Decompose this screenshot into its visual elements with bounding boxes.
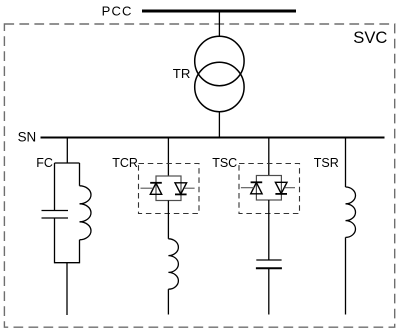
wire TCR valve to reactor — [167, 201, 169, 239]
svg-text:TCR: TCR — [112, 156, 138, 170]
svg-text:TSR: TSR — [314, 156, 339, 170]
capacitor FC — [42, 211, 69, 219]
wire FC right leg upper — [79, 163, 81, 186]
TCR valve dashed box — [139, 164, 200, 214]
wire TSR stem from SN bus — [345, 138, 347, 187]
wire FC bottom bar — [55, 262, 80, 264]
thyristor downward gate lead — [285, 187, 295, 189]
valve body rectangle — [156, 176, 181, 201]
thyristor upward triangle — [251, 183, 262, 194]
thyristor downward cathode bar — [275, 193, 287, 195]
svg-text:SVC: SVC — [353, 28, 387, 47]
thyristor downward cathode bar — [175, 193, 187, 195]
wire FC right leg lower — [79, 240, 81, 263]
valve body rectangle — [256, 176, 281, 201]
wire FC top bar — [55, 162, 80, 164]
TCR thyristor valve — [141, 176, 195, 201]
capacitor TSC — [256, 260, 282, 268]
thyristor upward gate lead — [241, 187, 254, 189]
TSC valve dashed box — [239, 164, 300, 214]
wire TCR tail — [167, 289, 169, 314]
inductor TCR reactor — [168, 239, 178, 289]
wire FC tail — [66, 263, 68, 315]
wire TCR stem from SN bus — [167, 138, 169, 176]
svg-text:TR: TR — [173, 66, 191, 81]
svg-text:FC: FC — [36, 156, 53, 170]
wire TSC tail — [268, 268, 270, 314]
svg-text:TSC: TSC — [212, 156, 237, 170]
wire PCC bus to transformer — [218, 11, 220, 37]
inductor FC filter reactor — [80, 186, 92, 240]
thyristor downward triangle — [175, 183, 187, 194]
TSC thyristor valve — [241, 176, 295, 201]
thyristor upward gate lead — [141, 187, 154, 189]
wire TSR tail — [345, 237, 347, 314]
thyristor upward cathode bar — [150, 182, 162, 184]
bus SN — [41, 136, 385, 138]
inductor TSR reactor — [346, 187, 356, 237]
svg-text:PCC: PCC — [102, 4, 133, 19]
thyristor upward triangle — [150, 183, 161, 194]
transformer TR primary winding — [195, 36, 244, 85]
wire FC stem from SN bus — [66, 138, 68, 163]
svg-text:SN: SN — [18, 129, 37, 144]
transformer TR secondary winding — [195, 62, 244, 111]
wire TSC stem from SN bus — [268, 138, 270, 176]
wire FC left leg lower — [54, 218, 56, 263]
wire TSC valve to capacitor — [268, 200, 270, 260]
bus PCC — [142, 10, 296, 13]
thyristor downward gate lead — [184, 187, 194, 189]
thyristor upward cathode bar — [251, 181, 263, 183]
wire FC left leg upper — [54, 163, 56, 211]
thyristor downward triangle — [275, 182, 287, 193]
wire transformer to SN bus — [218, 112, 220, 138]
